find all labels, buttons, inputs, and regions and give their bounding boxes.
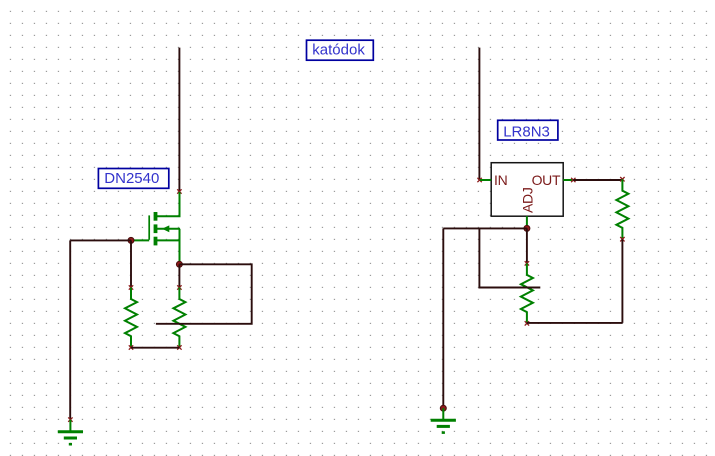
pin marker: R3 top [525,261,529,265]
pin marker: IN pin [477,178,481,182]
pin marker: R2 bottom [177,345,181,349]
wire: source junction down to R2 [178,264,180,287]
resistor R1 [125,288,137,348]
wire: left rail down to ground [69,240,71,419]
pin marker: R1 top [129,285,133,289]
pin marker: R2 top [177,285,181,289]
resistor R3 [521,263,533,323]
label LR8N3 [498,120,558,140]
pin marker: OUT pin [571,178,575,182]
transistor Q1 DN2540 (N-channel depletion MOSFET) [131,192,180,264]
wire: gate junction to left rail [70,239,131,241]
wire: left cathode feed (vertical, top) [178,48,180,192]
svg-text:DN2540: DN2540 [104,170,159,187]
svg-text:IN: IN [494,172,507,188]
wire: R1 bottom to R2 bottom [131,347,179,349]
svg-text:katódok: katódok [312,41,365,58]
pin marker: left ground [68,417,72,421]
svg-text:LR8N3: LR8N3 [503,123,550,140]
ground (right) [431,408,456,432]
pin marker: drain pin of Q1 [177,189,181,193]
pin marker: R3 bottom [525,321,529,325]
svg-text:OUT: OUT [532,172,561,188]
wire: ADJ junction to ground rail [443,227,527,229]
label katódok [307,40,374,60]
node: ADJ junction [524,225,530,231]
pin marker: R1 bottom [129,345,133,349]
wire: ground rail down [442,228,444,406]
wire: OUT to R4 [573,179,622,181]
wire: ADJ feedback loop [479,228,540,287]
regulator U1 LR8N3 [480,163,573,229]
resistor R2 [173,288,185,348]
wire: ADJ junction down to R3 [526,228,528,263]
svg-text:ADJ: ADJ [519,187,535,213]
wire: feedback loop right of Q1 source [156,264,252,324]
wire: R3 bottom to R4 bottom [527,322,623,324]
resistor R4 [616,179,628,239]
pin marker: R4 top [620,177,624,181]
wire: gate junction down to R1 [130,240,132,287]
node: right ground junction [440,405,446,411]
node: gate junction [128,237,134,243]
node: source junction [176,261,182,267]
wire: right cathode feed (vertical, top) [478,48,480,180]
ground (left) [58,420,83,444]
label DN2540 [98,169,168,189]
pin marker: R4 bottom [620,237,624,241]
wire: R4 bottom down [621,239,623,323]
